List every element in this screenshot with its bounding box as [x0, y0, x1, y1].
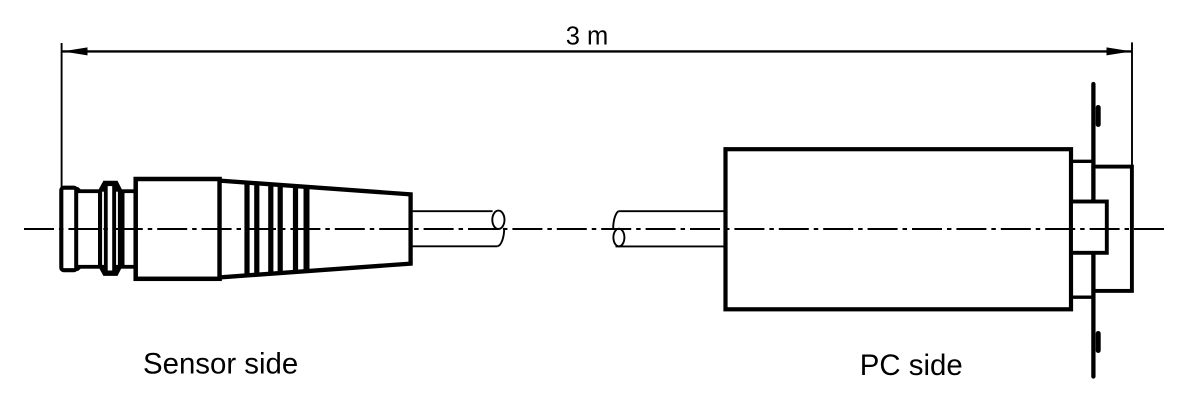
receptacle box — [1093, 167, 1132, 291]
panel plate — [1091, 84, 1095, 377]
neck step top line — [1071, 160, 1093, 163]
extension line left — [61, 43, 63, 187]
svg-text:3 m: 3 m — [566, 22, 609, 50]
sensor connector tip rect1 — [61, 188, 76, 271]
cone rib 2 — [254, 183, 259, 274]
sensor connector neck rect2 — [76, 191, 100, 267]
cone rib 6 — [304, 187, 310, 271]
left cable end break arc — [497, 228, 504, 246]
plug protrusion — [1071, 202, 1107, 253]
right cable bottom line — [616, 245, 726, 247]
dimension line 3 m — [62, 50, 1132, 52]
svg-text:Sensor side: Sensor side — [143, 348, 298, 381]
sensor connector neck rect3 — [123, 191, 136, 267]
left cable top line — [413, 210, 493, 212]
cone rib 1 — [244, 183, 249, 276]
dimension arrow right — [1107, 47, 1132, 55]
cone rib 5 — [293, 186, 298, 272]
panel screw bottom — [1096, 334, 1101, 351]
left cable bottom line — [413, 245, 498, 247]
bevel rect1 to rect2 top — [77, 188, 81, 191]
panel screw top — [1096, 108, 1101, 125]
left cable end cross-section ellipse — [492, 211, 504, 229]
sensor connector body — [136, 179, 220, 279]
cone rib 4 — [278, 185, 283, 273]
neck step bottom line — [1071, 296, 1093, 299]
coupling ring groove left — [102, 192, 104, 265]
coupling ring center channel — [108, 186, 113, 270]
bevel rect1 to rect2 bottom — [77, 267, 81, 270]
dimension arrow left — [63, 47, 88, 55]
right cable cross-section ellipse — [613, 229, 624, 247]
right cable top line — [618, 210, 725, 212]
extension line right — [1131, 42, 1133, 167]
sensor connector coupling ring (solid with white grooves) — [99, 181, 123, 275]
cone rib 3 — [268, 184, 273, 273]
svg-text:PC side: PC side — [860, 349, 963, 382]
centerline — [24, 228, 1166, 230]
right cable break arc — [613, 211, 618, 229]
coupling ring groove right — [116, 192, 118, 265]
sensor connector strain relief cone — [220, 181, 411, 278]
PC connector big box — [726, 149, 1072, 309]
